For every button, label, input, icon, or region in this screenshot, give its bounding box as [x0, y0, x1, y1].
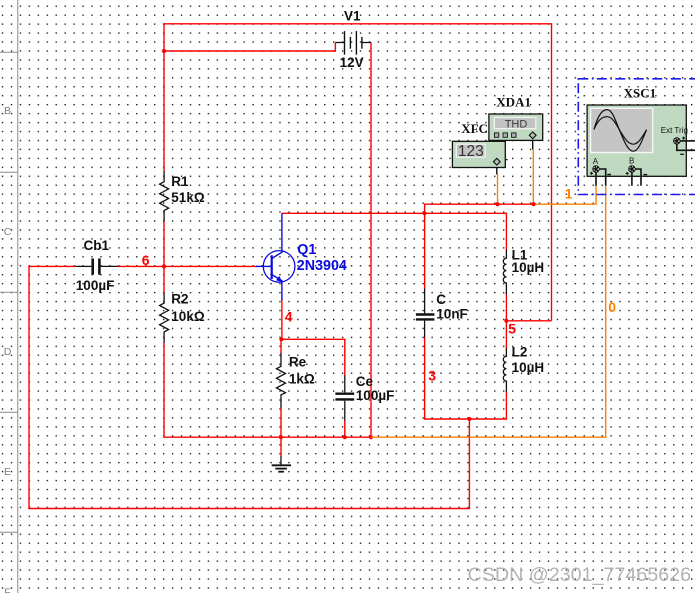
svg-text:3: 3	[428, 368, 436, 384]
wire left vertical to R1	[163, 23, 165, 171]
wire net 0 orange scope A- to rail	[371, 186, 606, 437]
svg-text:R2: R2	[171, 291, 188, 306]
svg-text:XFC: XFC	[461, 121, 488, 136]
wire XFC drop orange	[497, 174, 499, 204]
capacitor Cb1	[75, 259, 118, 275]
wire node 5 to right riser	[506, 320, 551, 322]
wire Re top	[280, 339, 282, 353]
wire node 4 to Ce	[281, 339, 344, 375]
svg-text:C: C	[4, 226, 12, 238]
capacitor Ce	[335, 375, 354, 420]
svg-text:10µH: 10µH	[512, 260, 545, 275]
wire Re bottom	[280, 407, 282, 437]
resistor Re	[277, 353, 286, 408]
oscilloscope XSC1 body	[587, 105, 686, 176]
wire emitter drop	[281, 299, 283, 339]
svg-text:THD: THD	[505, 118, 528, 130]
svg-text:XDA1: XDA1	[496, 94, 531, 109]
battery V1	[335, 31, 371, 55]
wire node 6 Cb1 to base	[118, 265, 258, 267]
junction rail Ce	[343, 435, 347, 439]
svg-text:A: A	[593, 157, 599, 166]
wire collector run	[282, 213, 507, 250]
junction node 5	[504, 319, 508, 323]
capacitor C	[416, 289, 435, 338]
svg-text:F: F	[4, 587, 10, 593]
svg-text:B: B	[4, 105, 11, 117]
inductor L1	[503, 250, 506, 295]
svg-text:51kΩ: 51kΩ	[171, 190, 205, 205]
svg-text:E: E	[4, 466, 11, 478]
svg-text:2N3904: 2N3904	[297, 258, 347, 274]
svg-text:0: 0	[608, 299, 616, 315]
junction node 4	[279, 337, 283, 341]
wire node 5 to L2	[505, 321, 507, 349]
svg-text:1kΩ: 1kΩ	[289, 372, 315, 387]
junction rail Re	[279, 435, 283, 439]
svg-text:123: 123	[458, 143, 484, 160]
junction node 6	[162, 264, 166, 268]
svg-text:L2: L2	[512, 345, 528, 360]
svg-text:Q1: Q1	[297, 242, 316, 258]
junction rail V1	[369, 435, 373, 439]
transistor Q1	[256, 213, 295, 300]
oscilloscope XSC1 selection box	[578, 79, 695, 195]
wire R1 to node 6	[163, 221, 165, 267]
svg-text:12V: 12V	[340, 55, 364, 70]
XSC1 terminal B	[626, 156, 648, 185]
inductor L2	[503, 348, 506, 391]
svg-text:Ce: Ce	[356, 374, 374, 389]
svg-text:10nF: 10nF	[436, 307, 468, 322]
ground	[272, 456, 291, 471]
wire net V1+ top	[164, 24, 552, 321]
instrument XFC	[452, 141, 507, 174]
svg-text:10µH: 10µH	[512, 360, 545, 375]
svg-text:Re: Re	[289, 354, 307, 369]
scope trace big	[594, 110, 647, 152]
wire net 1 orange to scope A+	[534, 186, 597, 204]
scope trace small	[594, 117, 647, 145]
wire instrument bus	[425, 204, 534, 213]
junction tank bottom	[467, 417, 471, 421]
resistor R2	[160, 293, 169, 343]
wire node 6 left of Cb1	[29, 265, 76, 267]
wire feedback bottom run	[28, 508, 469, 510]
svg-text:1: 1	[565, 185, 573, 201]
svg-text:100µF: 100µF	[356, 388, 395, 403]
wire ground stub	[280, 437, 282, 457]
junction bus riser	[423, 211, 427, 215]
svg-text:Cb1: Cb1	[84, 238, 110, 253]
instrument XDA1	[489, 114, 543, 149]
svg-text:10kΩ: 10kΩ	[171, 309, 205, 324]
wire tank left upper	[424, 213, 426, 289]
wire battery plus down	[370, 43, 372, 438]
svg-text:XSC1: XSC1	[624, 86, 657, 101]
wire tank left lower	[424, 337, 426, 419]
svg-text:C: C	[436, 292, 446, 307]
svg-text:5: 5	[508, 321, 516, 337]
svg-text:6: 6	[142, 252, 150, 268]
resistor R1	[160, 171, 169, 221]
wire L1 to node 5	[505, 294, 507, 321]
wire L2 bottom	[505, 391, 507, 419]
svg-text:CSDN @2301_77465626: CSDN @2301_77465626	[468, 564, 692, 586]
wire XDA1 drop orange	[532, 149, 534, 204]
junction	[162, 49, 166, 53]
wire R2 bottom to rail	[164, 342, 371, 437]
wire tank bottom	[424, 418, 507, 420]
svg-text:4: 4	[285, 308, 293, 324]
svg-text:D: D	[4, 346, 12, 358]
XSC1 terminal A	[590, 157, 611, 186]
svg-text:Ext Trig: Ext Trig	[661, 126, 688, 135]
wire R2 top	[163, 266, 165, 293]
svg-text:V1: V1	[344, 9, 361, 24]
wire feedback riser to tank	[468, 419, 470, 509]
wire battery minus feed	[164, 43, 335, 52]
wire feedback left drop	[28, 266, 30, 509]
svg-text:B: B	[629, 156, 634, 165]
svg-text:100µF: 100µF	[76, 278, 115, 293]
junction XFC tap	[495, 202, 499, 206]
XSC1 terminal Ext Trig	[661, 126, 695, 154]
junction XDA1 tap	[531, 202, 535, 206]
wire Ce bottom	[344, 420, 346, 437]
Q1 emitter arrow	[276, 276, 282, 282]
svg-text:R1: R1	[171, 174, 189, 189]
